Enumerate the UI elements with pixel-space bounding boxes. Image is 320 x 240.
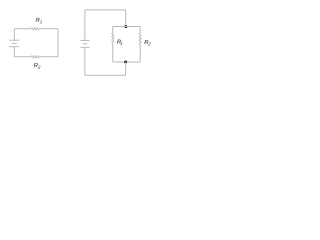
wire left-circuit top side <box>14 28 58 30</box>
wire left-circuit left side (bottom stub) <box>13 47 15 57</box>
label R1 (right circuit) <box>117 40 121 44</box>
wire left-circuit right side <box>57 29 59 57</box>
wire right-circuit top feed down <box>125 10 127 27</box>
node bottom junction dot <box>124 61 127 64</box>
battery B2 (right circuit) <box>80 40 89 47</box>
wire right-circuit left side (bottom stub) <box>84 48 86 76</box>
resistor R1 (right circuit, vertical zigzag) <box>112 33 114 45</box>
node top junction dot <box>124 25 127 28</box>
wire parallel-box bottom rail <box>113 61 140 63</box>
wire R1 branch top stub <box>112 27 114 33</box>
wire left-circuit left side (top stub) <box>13 29 15 40</box>
resistor R2 (left circuit, zigzag) <box>31 56 40 58</box>
wire R2 branch bottom stub <box>139 45 141 63</box>
wire right-circuit bottom side <box>85 74 126 76</box>
wire right-circuit top side <box>85 9 126 11</box>
wire right-circuit bottom feed down <box>125 62 127 75</box>
wire left-circuit bottom side <box>14 56 58 58</box>
battery B1 (left circuit) <box>9 40 19 47</box>
resistor R1 (left circuit, zigzag) <box>31 28 40 30</box>
wire right-circuit left side (top stub) <box>84 10 86 40</box>
wire R1 branch bottom stub <box>112 44 114 62</box>
label R2 (left circuit) <box>34 63 38 67</box>
label R2 (right circuit) <box>144 40 148 44</box>
resistor R2 (right circuit, vertical zigzag) <box>139 33 141 44</box>
wire parallel-box top rail <box>113 26 140 28</box>
label R1 (left circuit) <box>36 18 40 22</box>
wire R2 branch top stub <box>139 27 141 34</box>
